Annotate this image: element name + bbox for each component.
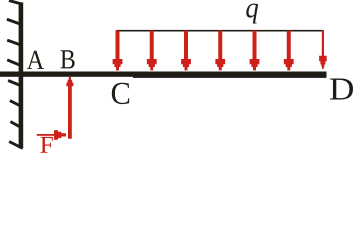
wall hatch 3	[7, 40, 21, 45]
load arrow 5	[250, 31, 260, 71]
force F arrow (upward at B)	[66, 77, 73, 139]
load arrow 3	[181, 31, 191, 71]
label D	[330, 79, 353, 100]
wall hatch 2	[7, 19, 22, 24]
label A	[27, 51, 44, 69]
distributed load top line	[116, 30, 324, 32]
F vector overbar arrow	[37, 130, 66, 140]
beam right segment	[133, 72, 327, 78]
label q	[246, 4, 258, 24]
wall hatch 1	[9, 1, 22, 5]
label C	[112, 83, 129, 104]
label F	[40, 137, 52, 153]
load arrow 6	[284, 31, 294, 71]
wall hatch 8	[9, 142, 23, 149]
load arrow 2	[147, 31, 157, 71]
wall hatch 7	[10, 122, 21, 128]
wall hatch 5	[8, 81, 21, 86]
load arrow 1	[113, 31, 123, 71]
load arrow 7	[319, 31, 327, 69]
wall hatch 6	[10, 101, 22, 107]
beam left segment (embedded through wall)	[0, 72, 134, 77]
wall hatch 4	[7, 60, 22, 66]
wall	[19, 2, 24, 148]
load arrow 4	[215, 31, 225, 71]
label B	[61, 50, 75, 68]
